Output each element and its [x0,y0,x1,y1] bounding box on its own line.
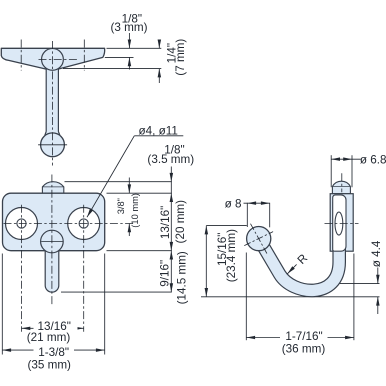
front view: left hole outer (ø11) [6,208,38,240]
dimension ø4.4 wire [377,268,379,284]
centerline left hole vertical / ext 21mm [21,205,23,332]
svg-text:(10 mm): (10 mm) [130,193,140,228]
side view: ball end [247,227,271,251]
dimension ø6.8 [330,155,332,187]
side view: inner bottom tangent line (ø4.4) [318,283,380,285]
front view: right hole outer (ø11) [68,208,100,240]
svg-text:1-7/16": 1-7/16" [285,330,322,343]
dimension 1/8in 3mm edge thickness [128,33,130,48]
center mark ball (side view) [244,232,273,246]
centerline right hole vertical / ext 21mm [83,205,85,332]
svg-text:(7 mm): (7 mm) [174,39,187,76]
svg-text:(20 mm): (20 mm) [174,200,187,244]
center mark ball (side view) [251,224,267,254]
hook top view: ball end [41,133,65,157]
main vertical centerline (top view) [51,41,53,166]
dimension 36mm overall [245,253,247,341]
centerline left hole (top view) [20,40,22,71]
dimension ø8 ball [246,203,248,227]
dimension 10mm [128,178,130,194]
side view: hook wire [259,202,340,290]
svg-text:(14.5 mm): (14.5 mm) [176,251,189,304]
dimension 20mm [170,193,172,251]
front view: right hole inner (ø4) [79,219,88,228]
svg-text:(3.5 mm): (3.5 mm) [147,153,194,166]
dimension 21mm hole spacing [22,327,84,329]
main vertical centerline front view [51,175,53,307]
center mark ball (top view) [38,144,67,146]
dimension 1/4in 7mm plate height [158,42,160,49]
svg-text:(35 mm): (35 mm) [27,359,71,372]
svg-text:(21 mm): (21 mm) [27,331,71,344]
svg-text:ø 4.4: ø 4.4 [370,240,383,267]
extension line tab top [65,181,172,183]
svg-text:ø 6.8: ø 6.8 [360,153,386,166]
front view: mounting plate [3,193,105,251]
dimension 3.5mm arrow [170,167,172,182]
dimension 35mm overall width [1,254,3,355]
side view: white boss column [333,195,346,251]
extension line plate top [107,192,172,194]
svg-text:(23.4 mm): (23.4 mm) [225,229,238,282]
hook top view: hub boss circle [42,48,64,70]
svg-text:(3 mm): (3 mm) [110,21,147,34]
front view: stem [45,250,59,293]
front view: tab at top of plate [42,182,63,194]
centerline through holes (horizontal) [4,223,134,225]
side view: plate [330,194,353,252]
hook top view: plate silhouette [1,48,104,70]
extension line stem bottom [61,291,172,293]
extension line wing tip bottom [105,56,134,58]
extension line plate bottom [107,250,172,252]
front view: hub ball [41,230,64,253]
hook top view: stem [45,64,60,135]
side view: oval slot [335,212,343,235]
side view horizontal centerline [325,223,359,225]
svg-text:3/8": 3/8" [116,198,126,214]
svg-text:1-3/8": 1-3/8" [38,346,69,359]
side view: dome tab [332,181,350,193]
horizontal centerline hub (top view) [39,58,78,60]
side view dome vertical centerline [341,173,343,192]
side view: shared bottom tangent line (15/16 + ø4.4) [201,296,380,298]
svg-text:9/16": 9/16" [159,260,172,287]
svg-text:(36 mm): (36 mm) [282,342,326,355]
dimension 15/16in 23.4mm [206,225,247,227]
svg-text:ø4, ø11: ø4, ø11 [138,124,177,137]
extension line plate top edge [107,47,162,49]
front view: left hole inner (ø4) [17,219,26,228]
dimension 14.5mm [170,251,172,292]
extension line plate bottom (hub tangent) [63,68,161,70]
svg-text:ø 8: ø 8 [225,197,242,210]
svg-text:13/16": 13/16" [159,206,172,239]
centerline right hole (top view) [83,40,85,71]
